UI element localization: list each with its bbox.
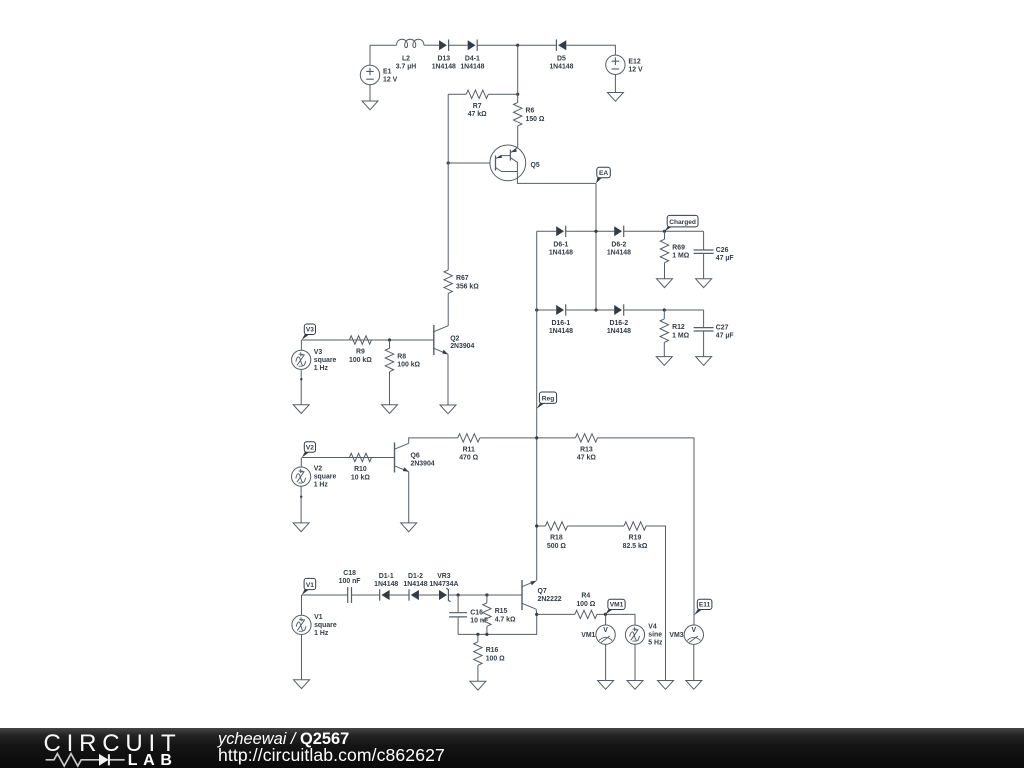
wire R67 to Q2 collector xyxy=(447,293,449,326)
wire D1-1 to D1-2 xyxy=(390,594,409,596)
svg-text:100 Ω: 100 Ω xyxy=(576,601,595,608)
wire C27 top lead xyxy=(703,310,705,328)
resistor R67 xyxy=(444,270,479,294)
svg-text:V1: V1 xyxy=(314,614,323,621)
svg-text:1N4148: 1N4148 xyxy=(374,581,398,588)
svg-text:R67: R67 xyxy=(456,275,469,282)
diode D4-1 xyxy=(460,40,484,71)
svg-text:LAB: LAB xyxy=(128,752,178,768)
node VM1 junction xyxy=(604,613,607,616)
svg-text:5 Hz: 5 Hz xyxy=(648,640,663,647)
wire emitter bottom wire xyxy=(458,614,537,634)
svg-text:R69: R69 xyxy=(672,244,685,251)
node top rail junction xyxy=(516,44,519,47)
svg-text:R15: R15 xyxy=(495,608,508,615)
svg-text:L2: L2 xyxy=(402,55,410,62)
node R15 top junction xyxy=(485,593,488,596)
svg-text:VR3: VR3 xyxy=(437,573,451,580)
ground below Q2 xyxy=(440,405,456,414)
svg-text:V3: V3 xyxy=(306,327,314,334)
svg-text:R7: R7 xyxy=(473,103,482,110)
wire R4 to V4 xyxy=(597,614,635,625)
svg-text:V2: V2 xyxy=(314,466,323,473)
resistor R7 xyxy=(466,90,488,118)
svg-text:VM1: VM1 xyxy=(610,602,624,609)
wire Q6 emitter to ground xyxy=(408,472,410,523)
wire E1 to ground xyxy=(369,85,371,101)
svg-text:E12: E12 xyxy=(628,58,640,65)
node R12 junction xyxy=(663,308,666,311)
wire D6-1 to D6-2 xyxy=(566,230,615,232)
diode D13 xyxy=(432,40,456,71)
resistor R12 xyxy=(660,319,689,343)
wire main vertical rail xyxy=(536,231,538,580)
svg-text:square: square xyxy=(314,357,337,364)
svg-text:D5: D5 xyxy=(557,55,566,62)
svg-text:12 V: 12 V xyxy=(383,77,398,84)
svg-text:C16: C16 xyxy=(470,610,483,617)
diode D16-2 xyxy=(607,304,631,335)
ground below R16 xyxy=(470,681,486,690)
svg-text:D4-1: D4-1 xyxy=(465,55,480,62)
svg-text:E11: E11 xyxy=(699,602,711,609)
wire V4 to ground xyxy=(634,644,636,680)
wire C18 to D1-1 xyxy=(352,594,380,596)
svg-text:Reg: Reg xyxy=(542,396,554,403)
capacitor C18 xyxy=(339,570,361,603)
wire Q6 collector up xyxy=(407,438,409,443)
ground below V3 xyxy=(293,405,309,414)
ground below Q6 xyxy=(401,523,417,532)
wire R11 row xyxy=(408,437,457,439)
svg-text:10 kΩ: 10 kΩ xyxy=(351,474,370,481)
node R18 junction xyxy=(535,524,538,527)
diode D5 xyxy=(549,40,573,71)
wire Q5 base lead xyxy=(448,162,490,164)
svg-text:2N2222: 2N2222 xyxy=(538,596,562,603)
svg-text:R18: R18 xyxy=(550,535,563,542)
svg-text:100 nF: 100 nF xyxy=(339,578,361,585)
svg-text:EA: EA xyxy=(599,170,608,177)
resistor R19 xyxy=(623,522,648,550)
ground below C27 xyxy=(696,357,712,366)
wire V1 to ground xyxy=(301,635,303,680)
wire C27 bottom lead xyxy=(703,331,705,357)
svg-text:Q2: Q2 xyxy=(450,335,459,342)
ground below C26 xyxy=(696,279,712,288)
svg-text:V: V xyxy=(603,627,608,634)
voltage source V1 xyxy=(292,614,337,637)
svg-text:500 Ω: 500 Ω xyxy=(547,543,566,550)
ground below R8 xyxy=(382,405,398,414)
svg-text:V: V xyxy=(691,627,696,634)
wire VM1 to ground xyxy=(605,644,607,680)
svg-text:1N4148: 1N4148 xyxy=(549,328,573,335)
node flag V3 xyxy=(302,324,316,340)
wire R8 top lead xyxy=(389,340,391,348)
svg-text:R4: R4 xyxy=(581,593,590,600)
ground below R69 xyxy=(657,279,673,288)
wire R15 bottom lead xyxy=(486,626,488,634)
wire top rail E1 to L2 xyxy=(370,45,397,65)
node Q7 output node xyxy=(535,613,538,616)
node EA-D16 junction xyxy=(594,308,597,311)
wire R6 to Q5 xyxy=(517,126,519,147)
wire R69 top lead xyxy=(664,231,666,239)
svg-text:D6-2: D6-2 xyxy=(611,242,626,249)
resistor R8 xyxy=(385,348,420,372)
svg-text:1N4148: 1N4148 xyxy=(549,249,573,256)
svg-text:100 kΩ: 100 kΩ xyxy=(397,362,420,369)
wire D6-2 to C26 xyxy=(624,230,704,232)
wire R11 to R13 xyxy=(480,437,576,439)
wire left vertical rail xyxy=(447,94,449,270)
wire R16 top lead xyxy=(477,634,479,641)
resistor R13 xyxy=(575,434,597,462)
node flag Reg xyxy=(537,392,557,409)
wire V3 base wire xyxy=(302,339,434,341)
svg-text:VM1: VM1 xyxy=(581,632,595,639)
diode D1-1 xyxy=(374,573,398,601)
svg-text:R19: R19 xyxy=(629,535,642,542)
svg-text:C27: C27 xyxy=(716,325,729,332)
node below V3 xyxy=(300,378,302,380)
svg-text:Charged: Charged xyxy=(669,219,696,226)
wire Q7 collector to node xyxy=(535,609,538,614)
capacitor C27 xyxy=(694,325,734,340)
svg-text:1N4148: 1N4148 xyxy=(460,63,484,70)
svg-text:1N4148: 1N4148 xyxy=(432,63,456,70)
svg-text:1N4148: 1N4148 xyxy=(549,63,573,70)
svg-text:V3: V3 xyxy=(314,349,323,356)
node R11-R13 junction xyxy=(535,436,538,439)
svg-text:1 MΩ: 1 MΩ xyxy=(672,332,689,339)
ground below R19 rail xyxy=(658,681,674,690)
svg-text:47 µF: 47 µF xyxy=(716,255,734,262)
wire D6 row left xyxy=(537,230,557,232)
wire R12 top lead xyxy=(663,310,665,319)
svg-text:1N4734A: 1N4734A xyxy=(429,581,458,588)
svg-text:C18: C18 xyxy=(343,570,356,577)
wire R18 left lead xyxy=(537,525,546,527)
svg-text:12 V: 12 V xyxy=(628,66,643,73)
svg-text:82.5 kΩ: 82.5 kΩ xyxy=(623,543,648,550)
node R15 bottom junction xyxy=(485,633,488,636)
ground below E12 xyxy=(607,93,623,102)
node flag VM1 xyxy=(605,599,625,614)
svg-text:E1: E1 xyxy=(383,69,392,76)
svg-text:D6-1: D6-1 xyxy=(553,242,568,249)
wire VR3 to Q7 base xyxy=(448,594,522,596)
svg-text:R6: R6 xyxy=(526,108,535,115)
svg-text:D1-2: D1-2 xyxy=(408,573,423,580)
wire V1 to source xyxy=(301,595,303,615)
node R8 junction xyxy=(388,338,391,341)
node flag EA xyxy=(596,167,610,183)
zener diode VR3 xyxy=(429,573,458,602)
transistor Q5 xyxy=(490,145,540,181)
svg-text:Q7: Q7 xyxy=(538,588,547,595)
svg-text:470 Ω: 470 Ω xyxy=(459,455,478,462)
svg-text:47 kΩ: 47 kΩ xyxy=(577,455,596,462)
svg-text:R16: R16 xyxy=(486,647,499,654)
wire Q2 emitter to ground xyxy=(447,354,449,405)
node R16 top junction xyxy=(476,633,479,636)
voltage source V2 xyxy=(292,466,337,489)
svg-text:R9: R9 xyxy=(356,349,365,356)
svg-text:V4: V4 xyxy=(648,624,657,631)
svg-text:150 Ω: 150 Ω xyxy=(526,116,545,123)
svg-text:D16-2: D16-2 xyxy=(610,320,629,327)
wire E12 to ground xyxy=(614,75,616,93)
resistor R69 xyxy=(660,239,689,263)
svg-text:Q6: Q6 xyxy=(411,452,420,459)
wire R13 to E11 rail xyxy=(598,438,695,625)
svg-text:3.7 µH: 3.7 µH xyxy=(396,63,416,70)
voltage source V3 xyxy=(292,349,337,372)
wire D16 row left xyxy=(537,309,557,311)
svg-text:R12: R12 xyxy=(672,324,685,331)
svg-text:1N4148: 1N4148 xyxy=(607,328,631,335)
node Charged junction xyxy=(663,230,666,233)
wire R69 bottom lead xyxy=(664,263,666,279)
svg-text:C26: C26 xyxy=(716,247,729,254)
ground below R12 xyxy=(656,357,672,366)
wire EA vertical xyxy=(595,183,597,310)
ground below V4 xyxy=(627,681,643,690)
voltmeter VM3 xyxy=(669,625,703,644)
wire D1-2 to VR3 xyxy=(419,594,439,596)
svg-text:1 Hz: 1 Hz xyxy=(314,630,329,637)
wire VM1 top lead xyxy=(605,614,607,625)
node R7-R6 junction xyxy=(516,93,519,96)
svg-text:square: square xyxy=(314,622,337,629)
svg-text:2N3904: 2N3904 xyxy=(450,343,474,350)
svg-text:square: square xyxy=(314,474,337,481)
wire R7 left lead xyxy=(448,93,466,95)
wire C16 bottom lead xyxy=(457,617,459,635)
svg-text:VM3: VM3 xyxy=(669,632,683,639)
diode D16-1 xyxy=(549,304,573,335)
diode D1-2 xyxy=(403,573,427,601)
node main vertical D16 junction xyxy=(535,308,538,311)
wire R18 to R19 xyxy=(568,525,625,527)
wire V2 to ground xyxy=(300,486,302,523)
resistor R4 xyxy=(575,593,597,619)
node below V2 xyxy=(300,496,302,498)
node flag V2 xyxy=(302,442,316,458)
voltmeter VM1 xyxy=(581,625,615,644)
wire V1 to C18 xyxy=(302,594,348,596)
resistor R11 xyxy=(458,434,480,462)
wire R16 bottom lead xyxy=(477,665,479,681)
wire R7 right lead xyxy=(488,93,517,95)
ground below E1 xyxy=(362,101,378,110)
wire C26 bottom lead xyxy=(703,253,705,278)
svg-text:4.7 kΩ: 4.7 kΩ xyxy=(495,616,516,623)
ground below VM3 xyxy=(686,681,702,690)
node flag Charged xyxy=(665,215,699,231)
resistor R15 xyxy=(483,603,516,627)
wire D16-1 to D16-2 xyxy=(566,309,615,311)
wire R15 top lead xyxy=(486,595,488,603)
svg-text:R10: R10 xyxy=(354,466,367,473)
wire V3 to ground xyxy=(300,369,302,404)
wire VM3 to ground xyxy=(693,644,695,680)
wire D16-2 to C27 xyxy=(624,309,704,311)
voltage source E1 xyxy=(360,65,397,84)
svg-text:1 MΩ: 1 MΩ xyxy=(672,253,689,260)
svg-text:356 kΩ: 356 kΩ xyxy=(456,283,479,290)
svg-text:1N4148: 1N4148 xyxy=(403,581,427,588)
resistor R10 xyxy=(349,453,371,481)
svg-text:V2: V2 xyxy=(306,444,314,451)
diode D6-2 xyxy=(607,226,631,257)
transistor Q7 xyxy=(522,580,536,610)
resistor R9 xyxy=(349,336,372,364)
wire D4-1 to D5 xyxy=(477,44,556,46)
node Q5 base junction xyxy=(447,161,450,164)
wire C16 top lead xyxy=(457,595,459,613)
svg-text:D16-1: D16-1 xyxy=(552,320,571,327)
wire V3 to source xyxy=(300,340,302,350)
svg-text:1N4148: 1N4148 xyxy=(607,249,631,256)
svg-text:1 Hz: 1 Hz xyxy=(314,365,329,372)
capacitor C26 xyxy=(694,247,734,262)
wire R19 to ground rail xyxy=(646,526,665,681)
svg-text:47 µF: 47 µF xyxy=(716,333,734,340)
voltage source E12 xyxy=(606,55,643,74)
resistor R16 xyxy=(474,642,505,666)
wire Q5 collector to EA xyxy=(517,172,596,184)
svg-text:R8: R8 xyxy=(397,353,406,360)
svg-text:D13: D13 xyxy=(437,55,450,62)
svg-text:R13: R13 xyxy=(580,446,593,453)
inductor L2 xyxy=(396,39,424,70)
node C16 junction xyxy=(457,593,460,596)
wire V2 base wire xyxy=(302,457,395,459)
resistor R6 xyxy=(514,102,545,126)
resistor R18 xyxy=(545,522,567,550)
node flag V1 xyxy=(302,578,316,595)
ground below VM1 xyxy=(598,681,614,690)
svg-text:47 kΩ: 47 kΩ xyxy=(468,111,487,118)
diode D6-1 xyxy=(549,226,573,257)
svg-text:V1: V1 xyxy=(306,582,314,589)
ground below V2 xyxy=(293,523,309,532)
svg-text:sine: sine xyxy=(648,632,662,639)
svg-text:Q5: Q5 xyxy=(531,162,540,169)
svg-text:1 Hz: 1 Hz xyxy=(314,482,329,489)
wire output row xyxy=(537,613,575,615)
wire L2 to D13 xyxy=(424,44,439,46)
wire V2 to source xyxy=(300,458,302,468)
ground below V1 xyxy=(294,680,310,689)
voltage source V4 xyxy=(625,624,663,647)
svg-text:2N3904: 2N3904 xyxy=(411,460,435,467)
wire R8 bottom lead xyxy=(389,372,391,405)
capacitor C16 xyxy=(449,610,488,625)
node flag E11 xyxy=(694,599,712,615)
transistor Q6 xyxy=(395,443,409,473)
wire R12 bottom lead xyxy=(663,342,665,356)
svg-text:R11: R11 xyxy=(463,446,475,453)
node EA-D6 junction xyxy=(594,230,597,233)
wire rail into R6 xyxy=(517,45,519,102)
svg-text:100 kΩ: 100 kΩ xyxy=(349,357,372,364)
wire D13 to D4-1 xyxy=(449,44,468,46)
wire D5 to E12 xyxy=(566,45,615,55)
transistor Q2 xyxy=(434,325,448,355)
wire C26 top lead xyxy=(703,231,705,250)
svg-text:100 Ω: 100 Ω xyxy=(486,655,505,662)
svg-text:D1-1: D1-1 xyxy=(379,573,394,580)
